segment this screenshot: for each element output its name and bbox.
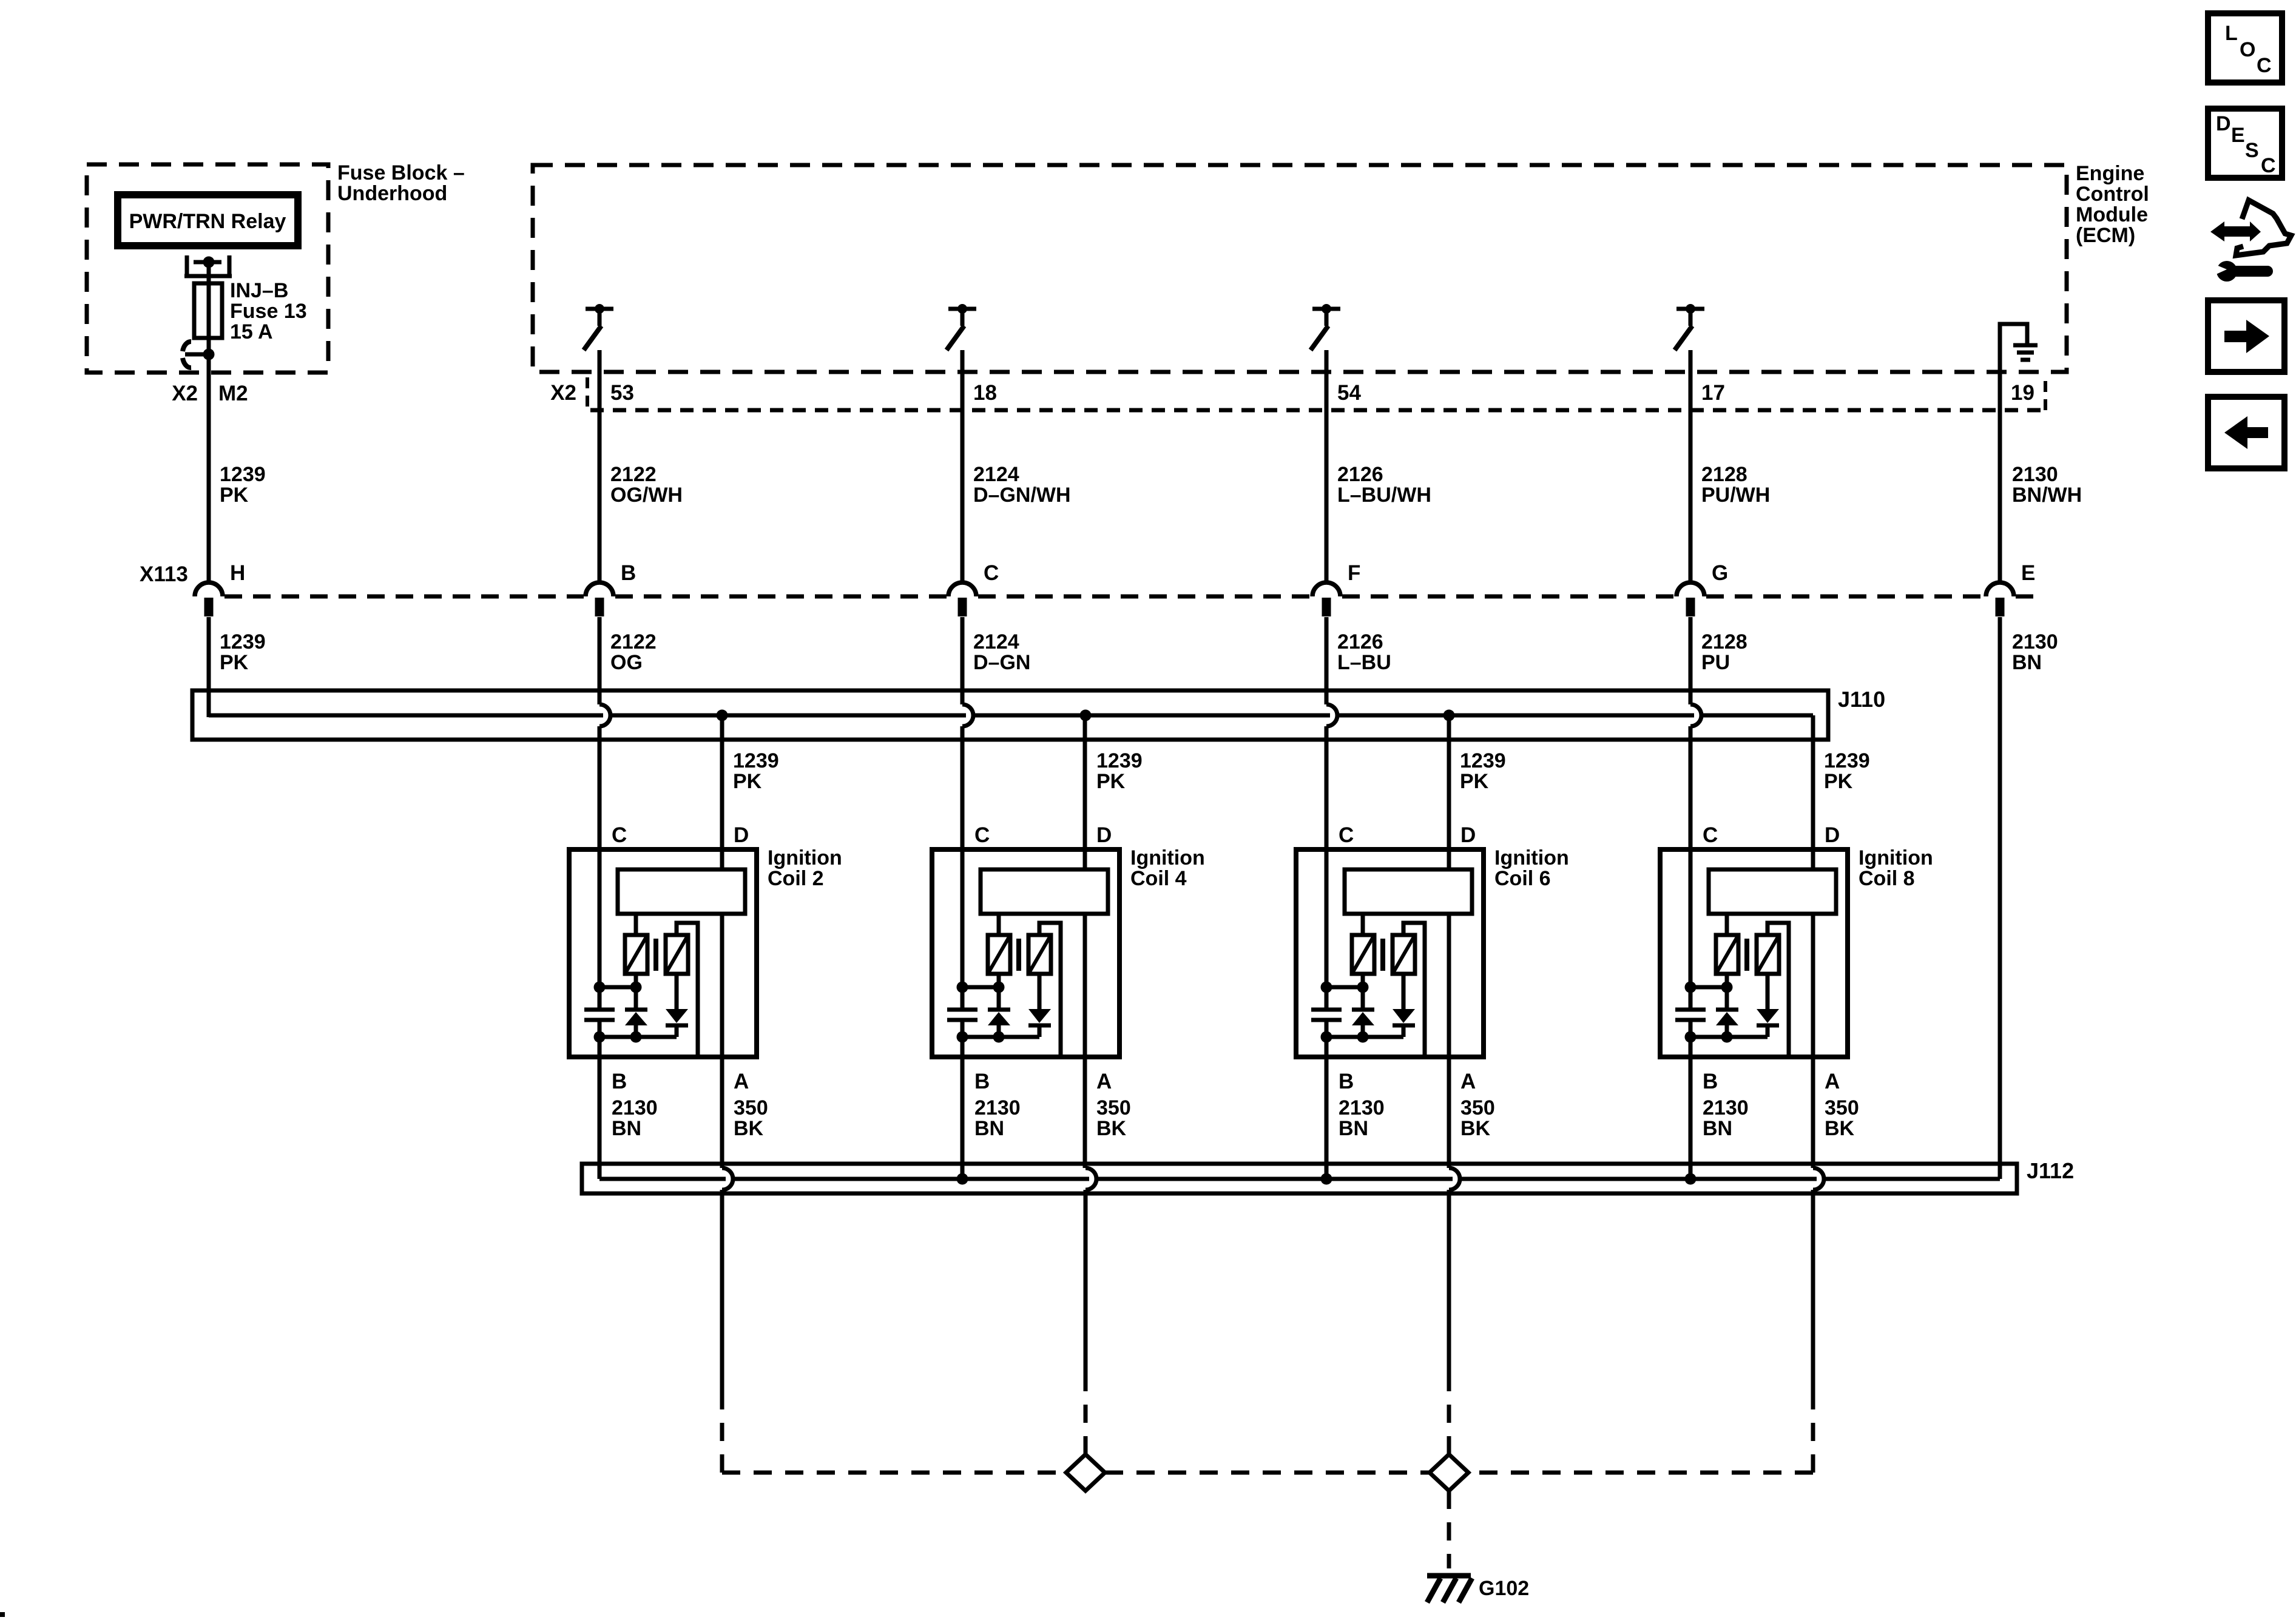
- wire 2126 L&#8211;BU/WH: ECM to X113: [1325, 350, 1329, 582]
- svg-text:17: 17: [1701, 381, 1725, 405]
- dashed drop to ground G102: [1447, 1491, 1451, 1568]
- coil 2 core: [653, 939, 658, 971]
- coil 4 core: [1016, 939, 1021, 971]
- wire label 1239 PK (coil feed at x=1789): [1096, 749, 1143, 793]
- ECM connector X2 dotted line: [590, 408, 2043, 413]
- coil 4 pin A wire: [1083, 914, 1087, 1168]
- coil 4 capacitor: [961, 987, 965, 1010]
- svg-text:C: C: [984, 561, 999, 585]
- svg-text:X113: X113: [140, 562, 188, 586]
- label G102: [1479, 1577, 1529, 1600]
- svg-text:C: C: [2257, 54, 2272, 77]
- svg-text:A: A: [1460, 1070, 1476, 1093]
- fuse F13: INJ-B 15 A: [194, 283, 222, 338]
- wire label 2130 BN/WH: [2012, 463, 2082, 507]
- svg-text:C: C: [612, 823, 627, 847]
- svg-text:2130: 2130: [1703, 1096, 1749, 1119]
- label: Fuse Block - Underhood: [337, 161, 465, 205]
- wire 1239 PK into coil 6 pin D: [1447, 715, 1451, 869]
- connector labels X2 / M2 at fuse block: [172, 382, 248, 405]
- svg-text:BN/WH: BN/WH: [2012, 484, 2082, 507]
- svg-text:(ECM): (ECM): [2076, 224, 2135, 247]
- wire 2130 BN/WH: ECM pin 19 to X113 pin E: [1998, 372, 2002, 582]
- svg-text:L: L: [2225, 22, 2238, 45]
- wire hop: coil low-reference wire crosses J112 at x=2388: [1449, 1168, 1460, 1190]
- X113 terminal E: dome and pin: [1986, 561, 2035, 616]
- svg-text:PK: PK: [1096, 770, 1126, 793]
- J110 bus conductor (1239 PK): [209, 714, 1813, 718]
- svg-text:1239: 1239: [220, 630, 266, 653]
- svg-text:X2: X2: [172, 382, 198, 405]
- coil 8 secondary winding: [1757, 935, 1779, 974]
- svg-text:1239: 1239: [220, 463, 266, 486]
- coil 2 zener diode (up): [634, 987, 638, 1010]
- svg-text:B: B: [621, 561, 636, 585]
- coil 6 primary winding: [1361, 914, 1365, 935]
- X113 terminal G: dome and pin: [1676, 561, 1728, 616]
- svg-text:Ignition: Ignition: [1494, 846, 1569, 869]
- wire hop: coil low-reference wire crosses J112 at x=1190: [722, 1168, 733, 1190]
- wire label 1239 PK (below X113): [220, 630, 266, 674]
- svg-text:PK: PK: [1460, 770, 1489, 793]
- wire label 2128 PU/WH: [1701, 463, 1770, 507]
- svg-text:E: E: [2231, 124, 2245, 147]
- relay output terminal (socket cup with bar and junction dot): [184, 255, 232, 278]
- junction dot on J110 at x=1789: [1080, 710, 1092, 721]
- wire hop: coil low-reference wire crosses J112 at x=1789: [1086, 1168, 1096, 1190]
- wire label 2126 L&#8211;BU/WH: [1337, 463, 1431, 507]
- ECM internal ground at pin 19 (earth symbol): [2000, 324, 2038, 372]
- svg-text:2126: 2126: [1337, 463, 1383, 486]
- coil 4 secondary winding: [1028, 935, 1051, 974]
- coil 2 bottom junction row: [599, 1035, 677, 1039]
- scan artifact speck bottom-left: [0, 1612, 5, 1617]
- svg-text:Ignition: Ignition: [1130, 846, 1205, 869]
- coil 4 pin B wire: [961, 1037, 965, 1179]
- ECM ignition coil driver (switch) for pin 17: [1675, 304, 1704, 350]
- wire: control into coil 8 pin C: [1689, 617, 1693, 704]
- svg-text:L–BU: L–BU: [1337, 651, 1391, 674]
- sidebar icon: back arrow box: [2208, 397, 2284, 468]
- svg-text:A: A: [1825, 1070, 1840, 1093]
- svg-text:Coil 4: Coil 4: [1130, 867, 1187, 890]
- wire 1239 PK into coil 8 pin D: [1811, 715, 1815, 869]
- svg-text:PK: PK: [220, 484, 249, 507]
- svg-text:53: 53: [610, 381, 634, 405]
- wire hop: coil control wire crosses J110 at x=2186: [1326, 704, 1337, 726]
- svg-text:B: B: [1339, 1070, 1354, 1093]
- svg-text:E: E: [2021, 561, 2035, 585]
- svg-text:BN: BN: [974, 1117, 1004, 1140]
- svg-text:J110: J110: [1838, 687, 1885, 712]
- X113 terminal C: dome and pin: [948, 561, 999, 616]
- coil 6 pin A wire: [1447, 914, 1451, 1168]
- svg-text:1239: 1239: [1824, 749, 1870, 772]
- coil 6 zener diode (up): [1361, 987, 1365, 1010]
- wire 350 BK drop from coil 8 (solid then dashed): [1811, 1190, 1815, 1473]
- svg-text:BK: BK: [1460, 1117, 1491, 1140]
- svg-text:G102: G102: [1479, 1577, 1529, 1600]
- coil 8 case: [1660, 849, 1848, 1057]
- ignition coil 6: [1296, 617, 1569, 1179]
- junction dot on J110 at x=2388: [1443, 710, 1455, 721]
- svg-text:2128: 2128: [1701, 463, 1747, 486]
- dashed ground bus 350 BK to G102: [722, 1471, 1813, 1475]
- label J112: [2027, 1158, 2074, 1183]
- sidebar icon: LOC box: [2208, 13, 2282, 83]
- ECM pin 54 label: [1337, 381, 1361, 405]
- connector separator ticks: [587, 377, 2045, 410]
- coil 4 case: [932, 849, 1119, 1057]
- coil 4 diode (down): [1038, 974, 1042, 1009]
- wire label 2128 PU (below X113): [1701, 630, 1747, 674]
- X113 terminal F: dome and pin: [1312, 561, 1360, 616]
- coil 6 diode (down): [1402, 974, 1406, 1009]
- svg-text:BN: BN: [612, 1117, 641, 1140]
- splice pack J110 outline: [192, 690, 1828, 740]
- inline connector X113 label: [140, 562, 188, 586]
- coil 4 junction row (primary low): [962, 985, 999, 990]
- J112 bus conductor (2130 BN ground bus): [599, 1177, 2000, 1181]
- ignition coil 8: [1660, 617, 1933, 1179]
- svg-text:H: H: [230, 561, 245, 585]
- fuse block bus tap hook and junction: [183, 342, 215, 368]
- wire 2124 D&#8211;GN/WH: ECM to X113: [961, 350, 965, 582]
- wire 350 BK drop from coil 2 (solid then dashed): [720, 1190, 724, 1473]
- svg-text:Ignition: Ignition: [768, 846, 842, 869]
- wire 1239 PK into coil 4 pin D: [1083, 715, 1087, 869]
- wire 2128 PU/WH: ECM to X113: [1689, 350, 1693, 582]
- label: X2 at ECM connector: [550, 381, 576, 405]
- label J110: [1838, 687, 1885, 712]
- splice diamond (coil 6 ground, to G102): [1430, 1454, 1468, 1491]
- svg-text:A: A: [1096, 1070, 1112, 1093]
- svg-text:2124: 2124: [973, 630, 1019, 653]
- coil 8 junction row (primary low): [1690, 985, 1727, 990]
- svg-text:1239: 1239: [733, 749, 779, 772]
- label: INJ-B Fuse 13 15 A: [230, 279, 307, 343]
- svg-text:OG: OG: [610, 651, 643, 674]
- coil 8 diode (down): [1766, 974, 1770, 1009]
- coil 6 bottom junction row: [1326, 1035, 1403, 1039]
- wire 1239 PK: H drop into J110 conductor: [207, 617, 211, 717]
- ECM pin 17 label: [1701, 381, 1725, 405]
- ECM pin 53 label: [610, 381, 634, 405]
- coil 8 capacitor: [1689, 987, 1693, 1010]
- svg-text:2122: 2122: [610, 630, 657, 653]
- svg-text:2124: 2124: [973, 463, 1019, 486]
- coil 2 pin B wire: [598, 1037, 602, 1179]
- wire 350 BK drop from coil 6 into splice diamond: [1447, 1190, 1451, 1454]
- sidebar icon: forward arrow box: [2208, 300, 2284, 372]
- coil 6 pin B wire: [1325, 1037, 1329, 1179]
- svg-text:1239: 1239: [1460, 749, 1506, 772]
- X113 terminal B: dome and pin: [586, 561, 636, 616]
- ECM pin 19 label: [2011, 381, 2034, 405]
- svg-text:PU/WH: PU/WH: [1701, 484, 1770, 507]
- coil 4 zener diode (up): [997, 987, 1001, 1010]
- wire label 2122 OG/WH: [610, 463, 683, 507]
- wire: control into coil 4 pin C: [961, 617, 965, 704]
- svg-text:BK: BK: [1825, 1117, 1855, 1140]
- svg-text:Engine: Engine: [2076, 162, 2144, 185]
- ECM ignition coil driver (switch) for pin 53: [584, 304, 613, 350]
- junction dot on J112 at x=2786: [1685, 1173, 1697, 1185]
- coil 8 primary winding: [1725, 914, 1729, 935]
- svg-text:X2: X2: [550, 381, 576, 405]
- svg-text:PK: PK: [220, 651, 249, 674]
- Engine Control Module (ECM) dashed box: [533, 165, 2067, 372]
- svg-text:J112: J112: [2027, 1158, 2074, 1183]
- svg-text:2130: 2130: [612, 1096, 658, 1119]
- svg-text:350: 350: [1096, 1096, 1131, 1119]
- svg-text:2126: 2126: [1337, 630, 1383, 653]
- svg-text:Coil 8: Coil 8: [1859, 867, 1915, 890]
- svg-text:2130: 2130: [974, 1096, 1021, 1119]
- svg-text:PWR/TRN Relay: PWR/TRN Relay: [129, 210, 286, 233]
- coil 2 secondary winding: [666, 935, 688, 974]
- svg-text:BK: BK: [1096, 1117, 1127, 1140]
- svg-text:PK: PK: [733, 770, 762, 793]
- svg-text:Coil 2: Coil 2: [768, 867, 824, 890]
- wire 350 BK drop from coil 4 into splice diamond: [1084, 1190, 1088, 1454]
- svg-text:Coil 6: Coil 6: [1494, 867, 1551, 890]
- coil 8 bottom junction row: [1690, 1035, 1768, 1039]
- wire label 1239 PK (coil feed at x=2388): [1460, 749, 1506, 793]
- svg-text:G: G: [1712, 561, 1728, 585]
- svg-text:1239: 1239: [1096, 749, 1143, 772]
- svg-text:18: 18: [973, 381, 997, 405]
- svg-text:D–GN/WH: D–GN/WH: [973, 484, 1071, 507]
- coil 2 diode (down): [675, 974, 679, 1009]
- svg-text:Control: Control: [2076, 183, 2149, 206]
- coil 6 secondary winding: [1393, 935, 1415, 974]
- wire label 2122 OG (below X113): [610, 630, 657, 674]
- svg-text:B: B: [612, 1070, 627, 1093]
- svg-text:A: A: [734, 1070, 749, 1093]
- wire hop: coil control wire crosses J110 at x=1586: [962, 704, 973, 726]
- coil 2 capacitor: [598, 987, 602, 1010]
- svg-text:C: C: [1703, 823, 1718, 847]
- svg-text:C: C: [2261, 154, 2276, 177]
- wire: control into coil 2 pin C: [598, 617, 602, 704]
- svg-text:BN: BN: [1703, 1117, 1732, 1140]
- coil 2 case: [569, 849, 757, 1057]
- sidebar icon: wrench with double arrow (service info): [2210, 200, 2291, 282]
- svg-text:D: D: [1460, 823, 1476, 847]
- wire hop: coil low-reference wire crosses J112 at x=2988: [1813, 1168, 1824, 1190]
- svg-text:C: C: [1339, 823, 1354, 847]
- junction dot on J112 at x=1586: [957, 1173, 968, 1185]
- sidebar icon: DESC box: [2208, 109, 2282, 178]
- svg-text:Fuse 13: Fuse 13: [230, 300, 307, 323]
- svg-text:350: 350: [1825, 1096, 1859, 1119]
- wire label 1239 PK (coil feed at x=2988): [1824, 749, 1870, 793]
- wire: control into coil 6 pin C: [1325, 617, 1329, 704]
- coil 2 connector block: [618, 869, 745, 914]
- svg-text:O: O: [2240, 38, 2255, 61]
- splice pack J112 outline: [582, 1164, 2017, 1193]
- fuse block - underhood (dashed component box): [87, 164, 328, 373]
- coil 6 connector block: [1345, 869, 1472, 914]
- junction dot on J110 at x=1190: [717, 710, 728, 721]
- splice diamond (coil 4 ground): [1066, 1454, 1105, 1491]
- coil 2 primary winding: [634, 914, 638, 935]
- coil 8 pin B wire: [1689, 1037, 1693, 1179]
- wire label 2124 D&#8211;GN (below X113): [973, 630, 1030, 674]
- wire 2122 OG/WH: ECM to X113: [598, 350, 602, 582]
- coil 8 pin A wire: [1811, 914, 1815, 1168]
- svg-text:350: 350: [734, 1096, 768, 1119]
- junction dot on J112 at x=2186: [1321, 1173, 1332, 1185]
- coil 6 core: [1380, 939, 1385, 971]
- svg-text:2122: 2122: [610, 463, 657, 486]
- X113 dashed connector line: [225, 595, 2034, 599]
- svg-text:BN: BN: [1339, 1117, 1368, 1140]
- wire hop: coil control wire crosses J110 at x=988: [599, 704, 610, 726]
- coil 2 pin A wire: [720, 914, 724, 1168]
- svg-text:D: D: [1825, 823, 1840, 847]
- svg-text:M2: M2: [218, 382, 248, 405]
- svg-text:D: D: [1096, 823, 1112, 847]
- svg-text:B: B: [1703, 1070, 1718, 1093]
- relay K1: PWR/TRN Relay box: [118, 195, 298, 246]
- coil 4 primary winding: [997, 914, 1001, 935]
- svg-text:54: 54: [1337, 381, 1361, 405]
- svg-text:D–GN: D–GN: [973, 651, 1030, 674]
- ground G102 (chassis ground symbol): [1427, 1576, 1472, 1602]
- wire: relay to fuse to fuse block exit (1239 PK inside fuse block): [207, 262, 211, 582]
- svg-text:15 A: 15 A: [230, 320, 273, 343]
- svg-text:B: B: [974, 1070, 990, 1093]
- coil 8 core: [1744, 939, 1749, 971]
- X113 terminal H: dome and pin: [195, 561, 245, 616]
- wire label 2124 D&#8211;GN/WH: [973, 463, 1071, 507]
- svg-text:BK: BK: [734, 1117, 764, 1140]
- svg-text:D: D: [734, 823, 749, 847]
- wire 2130 BN: X113 E down to J112: [1998, 617, 2002, 1179]
- svg-text:Ignition: Ignition: [1859, 846, 1933, 869]
- svg-text:19: 19: [2011, 381, 2034, 405]
- svg-text:L–BU/WH: L–BU/WH: [1337, 484, 1431, 507]
- coil 8 connector block: [1709, 869, 1836, 914]
- label: Engine Control Module (ECM): [2076, 162, 2149, 247]
- svg-text:350: 350: [1460, 1096, 1495, 1119]
- wire label 1239 PK: [220, 463, 266, 507]
- svg-text:S: S: [2245, 139, 2259, 162]
- coil 4 bottom junction row: [962, 1035, 1039, 1039]
- wire label 2130 BN (below X113): [2012, 630, 2058, 674]
- svg-text:2130: 2130: [2012, 463, 2058, 486]
- svg-text:Module: Module: [2076, 203, 2148, 226]
- coil 6 case: [1296, 849, 1484, 1057]
- ECM ignition coil driver (switch) for pin 18: [947, 304, 976, 350]
- svg-text:OG/WH: OG/WH: [610, 484, 683, 507]
- coil 8 zener diode (up): [1725, 987, 1729, 1010]
- svg-text:F: F: [1348, 561, 1360, 585]
- svg-text:PU: PU: [1701, 651, 1730, 674]
- svg-text:2130: 2130: [1339, 1096, 1385, 1119]
- ignition coil 4: [932, 617, 1205, 1179]
- svg-text:INJ–B: INJ–B: [230, 279, 288, 302]
- ECM pin 18 label: [973, 381, 997, 405]
- svg-text:C: C: [974, 823, 990, 847]
- svg-text:Fuse Block –: Fuse Block –: [337, 161, 465, 184]
- coil 2 junction row (primary low): [599, 985, 636, 990]
- wire 1239 PK into coil 2 pin D: [720, 715, 724, 869]
- coil 6 junction row (primary low): [1326, 985, 1363, 990]
- coil 4 connector block: [981, 869, 1108, 914]
- svg-text:2128: 2128: [1701, 630, 1747, 653]
- wire label 2126 L&#8211;BU (below X113): [1337, 630, 1391, 674]
- svg-text:D: D: [2216, 112, 2231, 135]
- ignition coil 2: [569, 617, 842, 1179]
- coil 6 capacitor: [1325, 987, 1329, 1010]
- ECM ignition coil driver (switch) for pin 54: [1311, 304, 1340, 350]
- svg-text:2130: 2130: [2012, 630, 2058, 653]
- wire hop: coil control wire crosses J110 at x=2786: [1690, 704, 1701, 726]
- wire label 1239 PK (coil feed at x=1190): [733, 749, 779, 793]
- svg-text:BN: BN: [2012, 651, 2042, 674]
- svg-text:Underhood: Underhood: [337, 182, 447, 205]
- svg-text:PK: PK: [1824, 770, 1853, 793]
